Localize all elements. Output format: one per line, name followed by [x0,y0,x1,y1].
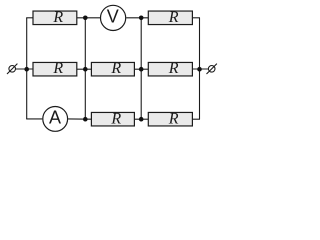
resistor R3 [33,60,77,77]
wire row2 R3 to R4 [77,68,92,70]
node row2 bus2 [83,67,88,72]
node row3 bus3 [139,117,144,122]
wire row2 R5 to terminal [192,68,208,70]
node row2 right bus [197,67,202,72]
svg-text:R: R [52,9,63,26]
wire row3 right [192,118,200,120]
svg-text:R: R [168,9,179,26]
resistor R4 [91,60,134,77]
wire row1 voltmeter to R2 [126,17,148,19]
svg-text:V: V [107,6,119,26]
wire bus2 vertical [84,18,86,119]
resistor R1 [33,9,77,26]
wire row1 left [26,17,33,19]
resistor R2 [148,9,192,26]
ammeter A1 [43,107,68,132]
wire row2 R4 to R5 [134,68,148,70]
wire row3 bus to ammeter [26,118,42,120]
node row3 bus2 [83,117,88,122]
svg-text:R: R [110,60,121,77]
wire bus3 vertical [140,18,142,119]
svg-text:R: R [110,110,121,127]
wire row3 R6 to R7 [134,118,148,120]
voltmeter V1 [101,5,126,30]
svg-text:R: R [168,110,179,127]
wire row1 R1 to voltmeter [77,17,100,19]
wire right bus vertical [199,18,201,119]
resistor R5 [148,60,192,77]
terminal left [7,64,17,74]
terminal right [207,64,217,74]
svg-text:R: R [168,60,179,77]
node row1 bus2 [83,15,88,20]
node row2 left bus [24,67,29,72]
resistor R6 [91,110,134,127]
wire left bus vertical [26,18,28,119]
wire row3 ammeter to R6 [68,118,91,120]
svg-text:R: R [52,60,63,77]
wire row1 right [192,17,200,19]
node row1 bus3 [139,15,144,20]
svg-text:A: A [49,107,61,127]
wire row2 terminal to bus [15,68,33,70]
resistor R7 [148,110,192,127]
node row2 bus3 [139,67,144,72]
